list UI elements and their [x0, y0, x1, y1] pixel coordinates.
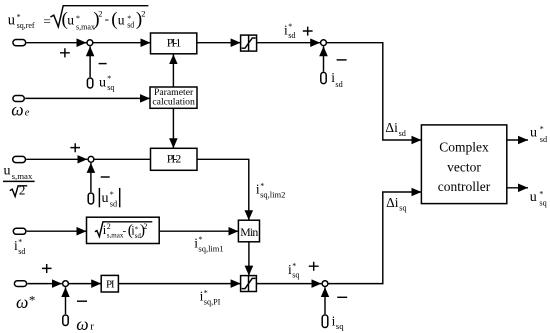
minus sign S1 — [99, 63, 107, 65]
plus sign S5 — [309, 262, 319, 271]
svg-text:sq: sq — [292, 271, 299, 280]
plus sign S1 — [60, 48, 70, 57]
feedback oval u*_sd magnitude — [88, 193, 93, 204]
svg-text:u: u — [67, 13, 74, 28]
svg-text:Δi: Δi — [386, 195, 399, 210]
svg-text:sq: sq — [539, 199, 546, 208]
wire L1 to summing junction S2 — [257, 42, 321, 44]
svg-text:controller: controller — [438, 179, 491, 194]
block Parameter calculation — [150, 87, 197, 108]
svg-text:PI-2: PI-2 — [167, 151, 182, 165]
wire |u*_sd| oval to S3 — [90, 163, 92, 192]
summing junction S3 — [88, 156, 94, 162]
svg-text:*: * — [110, 190, 114, 199]
svg-text:2: 2 — [98, 8, 102, 18]
wire oval1 to summing junction S1 — [26, 42, 86, 44]
wire PI-2 to Min (i*_sq,lim2) — [197, 159, 249, 220]
svg-text:*: * — [288, 22, 292, 31]
label u*_sq out — [530, 190, 547, 208]
label i*_sq,lim2 — [256, 181, 285, 199]
svg-text:Complex: Complex — [439, 140, 489, 155]
wire oval3 to summing junction S3 — [26, 158, 87, 160]
wire S3 to PI-2 — [94, 158, 150, 160]
svg-text:u: u — [530, 126, 537, 141]
summing junction S1 — [87, 40, 93, 46]
summing junction S4 — [63, 281, 69, 287]
svg-text:2: 2 — [141, 8, 145, 18]
svg-text:sq: sq — [107, 83, 114, 92]
svg-text:Min: Min — [240, 225, 258, 239]
svg-text:PI-1: PI-1 — [167, 35, 182, 49]
svg-text:sd: sd — [540, 135, 547, 144]
wire L2 to summing junction S5 — [256, 283, 321, 285]
svg-text:s,max: s,max — [76, 23, 95, 32]
svg-text:*: * — [29, 292, 36, 307]
label i*_sd — [284, 22, 295, 40]
label i*_sq — [288, 262, 299, 280]
plus sign S4 — [42, 264, 52, 273]
formula u*_sq,ref = sqrt((u*_s,max)^2 - (u*_sd)^2) — [8, 6, 149, 32]
svg-text:u: u — [8, 12, 15, 28]
svg-text:sq: sq — [399, 203, 406, 212]
wire oval5 to summing junction S4 — [27, 283, 62, 285]
svg-text:Δi: Δi — [385, 120, 398, 135]
svg-text:ω: ω — [11, 100, 23, 120]
label omega_e — [11, 100, 30, 120]
svg-text:=: = — [43, 14, 50, 29]
wire S1 to PI-1 — [93, 42, 150, 44]
svg-text:r: r — [90, 321, 94, 333]
svg-text:*: * — [18, 238, 22, 247]
input oval u*_sq,ref — [13, 40, 26, 46]
svg-text:sd: sd — [399, 129, 406, 138]
label u_s,max / sqrt2 — [3, 164, 35, 198]
block Min — [238, 220, 259, 242]
wire S5 to controller input 2 (Delta i_sq) — [328, 192, 422, 284]
wire Parameter calculation to PI-1 — [172, 54, 174, 87]
svg-text:u: u — [102, 191, 109, 206]
input oval omega* — [14, 281, 26, 287]
svg-text:PI: PI — [106, 278, 115, 290]
wire omega_r oval to S4 — [65, 287, 67, 314]
feedback oval u*_sq — [87, 78, 92, 88]
svg-text:*: * — [539, 190, 543, 199]
feedback oval omega_r — [63, 315, 68, 326]
svg-text:2: 2 — [19, 183, 26, 198]
svg-text:2: 2 — [143, 222, 147, 231]
label omega_r — [76, 314, 94, 333]
svg-text:sd: sd — [288, 31, 295, 40]
svg-text:s,max: s,max — [107, 232, 124, 240]
wire i_sq oval to S5 — [324, 287, 326, 314]
input oval u_s,max — [13, 156, 26, 162]
svg-text:sq,lim2: sq,lim2 — [260, 190, 285, 200]
svg-text:u: u — [4, 164, 11, 179]
label u*_sq — [99, 74, 114, 92]
wire sqrt block to Min (i*_sq,lim1) — [159, 230, 238, 232]
label Delta i_sd — [385, 120, 405, 138]
wire PI to limiter L2 (i*_sq,PI) — [118, 283, 240, 285]
svg-text:sq,lim1: sq,lim1 — [198, 244, 223, 254]
block sqrt(i^2_s,max - (i*_sd)^2) — [87, 217, 160, 243]
svg-text:*: * — [540, 124, 544, 133]
svg-text:calculation: calculation — [152, 96, 195, 107]
svg-text:*: * — [204, 288, 208, 297]
feedback oval i_sq — [322, 315, 328, 328]
minus sign S3 — [101, 176, 110, 178]
wire controller output u*_sq — [507, 187, 528, 189]
wire controller output u*_sd — [507, 139, 528, 141]
svg-text:ω: ω — [76, 314, 88, 333]
limiter L2 — [241, 276, 257, 292]
wire Parameter calculation to PI-2 — [172, 108, 174, 148]
block PI-2 — [151, 148, 198, 170]
input oval omega_e — [13, 96, 24, 102]
label i_sq — [332, 313, 345, 331]
wire omega_e to Parameter calculation — [25, 97, 150, 99]
svg-text:sq,PI: sq,PI — [204, 297, 221, 306]
svg-text:sd: sd — [18, 247, 25, 256]
label |u*_sd| — [99, 188, 119, 208]
svg-text:2: 2 — [107, 222, 111, 231]
svg-text:*: * — [107, 74, 111, 83]
block Complex vector controller — [421, 125, 506, 204]
label omega* — [16, 292, 35, 312]
label i*_sq,PI — [200, 288, 221, 306]
svg-text:-: - — [105, 11, 109, 26]
wire Min to limiter L2 — [248, 242, 250, 276]
input oval i*_sd — [13, 228, 26, 234]
summing junction S2 — [321, 40, 327, 46]
wire u*_sq oval to S1 — [89, 46, 91, 77]
label i*_sd row4 — [14, 238, 25, 256]
svg-text:e: e — [25, 107, 30, 118]
svg-text:*: * — [292, 262, 296, 271]
wire i_sd oval to S2 — [323, 46, 325, 71]
label Delta i_sq — [386, 195, 406, 213]
minus sign S2 — [337, 59, 347, 61]
wire S2 to controller input 1 (Delta i_sd) — [326, 43, 421, 140]
label i*_sq,lim1 — [194, 235, 223, 253]
plus sign S3 — [70, 143, 80, 152]
block PI — [101, 275, 118, 292]
svg-text:u: u — [99, 75, 106, 90]
label i_sd — [331, 70, 342, 89]
wire PI-1 to limiter L1 — [197, 42, 241, 44]
svg-text:sd: sd — [335, 80, 342, 89]
label u*_sd out — [530, 124, 547, 144]
svg-text:-: - — [123, 225, 127, 237]
svg-text:sd: sd — [110, 199, 117, 208]
wire oval4 to sqrt block — [27, 230, 87, 232]
svg-text:(: ( — [111, 9, 117, 30]
summing junction S5 — [322, 281, 328, 287]
svg-text:ω: ω — [16, 292, 28, 312]
svg-text:u: u — [530, 190, 537, 205]
svg-text:u: u — [118, 13, 125, 28]
wire S4 to PI — [68, 283, 101, 285]
limiter L1 — [241, 35, 257, 51]
minus sign S5 — [337, 296, 347, 298]
svg-text:s,max: s,max — [12, 171, 33, 181]
feedback oval i_sd — [321, 72, 326, 83]
block PI-1 — [151, 33, 197, 54]
minus sign S4 — [77, 300, 87, 302]
plus sign S2 — [303, 27, 313, 36]
svg-text:*: * — [17, 12, 21, 21]
svg-text:sq,ref: sq,ref — [17, 21, 35, 30]
svg-text:vector: vector — [447, 159, 481, 174]
svg-text:sq: sq — [336, 321, 344, 331]
svg-text:sd: sd — [127, 21, 134, 30]
